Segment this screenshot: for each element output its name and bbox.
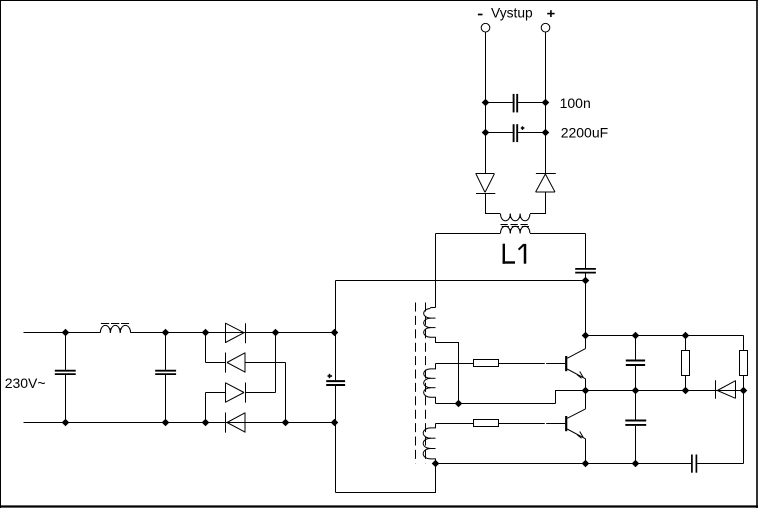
node: D3 to top rail xyxy=(272,329,280,337)
terminal minus xyxy=(481,23,490,32)
transistor Q1 xyxy=(566,336,585,391)
resistor R4 xyxy=(740,351,748,376)
capacitor after filter (second X cap) xyxy=(155,333,176,423)
node: R3 bottom xyxy=(682,387,690,395)
node: Q1 collector on rail xyxy=(582,332,590,340)
wire: right diode to L1 top winding xyxy=(530,192,546,214)
node: Q2 emitter on bottom rail xyxy=(582,460,590,468)
bridge diode D2 (pointing left) xyxy=(206,353,286,423)
wire: AC bottom rail xyxy=(24,422,335,424)
node: junction below cap xyxy=(582,277,590,285)
svg-text:100n: 100n xyxy=(560,95,591,111)
transistor Q2 xyxy=(566,391,585,464)
node: second cap top xyxy=(162,329,170,337)
svg-text:2200uF: 2200uF xyxy=(561,125,608,141)
resistor R1 xyxy=(474,360,499,367)
bridge diode D3 (pointing right) xyxy=(206,333,276,403)
wire: bottom rail (emitter line) xyxy=(436,463,692,465)
node: second cap bottom xyxy=(162,419,170,427)
diode D5 on middle rail (pointing left) xyxy=(716,380,736,398)
capacitor at L1 right (to primary bus) xyxy=(575,269,596,281)
svg-text:230V~: 230V~ xyxy=(5,375,46,391)
node: middle rail right xyxy=(740,387,748,395)
node: top rail to bulk line xyxy=(331,329,339,337)
wire: bulk cap vertical (lower) xyxy=(335,386,337,493)
inductor L1 bottom winding xyxy=(501,226,530,233)
bulk capacitor (polarized) xyxy=(326,374,345,385)
wire: horizontal bus y=280 to bulk cap line xyxy=(336,280,586,282)
output diode left (cathode down) xyxy=(476,174,496,194)
capacitor 100n xyxy=(486,94,546,113)
node: 100n right junction xyxy=(542,99,550,107)
wire: L1 left end down to transformer primary xyxy=(435,234,437,308)
node: bottom rail to bulk line xyxy=(331,419,339,427)
node: Ca bottom xyxy=(632,387,640,395)
wire: collector rail right corner down xyxy=(743,336,745,352)
wire: middle rail xyxy=(586,390,744,392)
transformer winding W1 (top) xyxy=(424,308,459,404)
node: bottom rail left branch xyxy=(202,419,210,427)
bridge diode D4 (bottom rail, pointing left) xyxy=(226,413,246,433)
wire: left diode to L1 top winding xyxy=(486,194,501,214)
wire: W2 bottom line to step xyxy=(436,403,556,405)
wire: L1 bottom winding left rail xyxy=(436,233,501,235)
transformer winding W3 (bottom) xyxy=(423,424,435,464)
label L1 xyxy=(503,244,525,264)
wire: right edge up to middle rail xyxy=(743,391,745,464)
resistor R3 (between rails) xyxy=(685,336,687,391)
wire: bulk cap vertical (upper) xyxy=(335,281,337,381)
svg-text:Vystup: Vystup xyxy=(491,5,533,20)
node: Cb bottom xyxy=(632,460,640,468)
wire: base line 1 (W2 top to R1 to Q1) xyxy=(436,363,566,365)
filter inductor core dashes xyxy=(101,323,129,325)
node: W3 bottom junction xyxy=(432,460,440,468)
wire: AC top rail (left of inductor) xyxy=(24,332,101,334)
wire: junction down to collector rail xyxy=(585,281,587,336)
node: W1 bottom to mid wire xyxy=(455,400,463,408)
node: 100n left junction xyxy=(482,99,490,107)
wire: bottom return to transformer xyxy=(336,464,436,493)
transformer winding W2 (middle) xyxy=(424,364,436,404)
node: R3 top xyxy=(682,332,690,340)
transformer core (dashed) xyxy=(416,303,426,464)
inductor L1 top winding xyxy=(501,214,530,221)
wire: branch up to D3 xyxy=(205,393,207,423)
bridge diode D1 (top rail, pointing right) xyxy=(226,323,246,343)
wire: branch down to D2 xyxy=(205,333,207,363)
node: left cap bottom xyxy=(62,419,70,427)
node: top rail left branch xyxy=(202,329,210,337)
wire: plus terminal down to right output diode xyxy=(545,32,547,174)
node: 2200uF right junction xyxy=(542,129,550,137)
capacitor across mains (left) xyxy=(55,333,76,423)
terminal plus xyxy=(541,23,550,32)
label "- Vystup +" xyxy=(491,5,533,20)
resistor R2 xyxy=(474,420,499,427)
output diode right (cathode up) xyxy=(536,174,556,193)
wire: L1 bottom winding right rail xyxy=(530,233,586,235)
wire: base line 2 (W3 top to R2 to Q2) xyxy=(436,423,566,425)
wire: R4 to middle rail xyxy=(743,376,745,391)
node: Q1 emitter / Q2 collector junction xyxy=(582,387,590,395)
wire: AC top rail (right of inductor) xyxy=(131,332,335,334)
capacitor Cb (middle rail to bottom rail) xyxy=(625,391,646,464)
node: D2 to bottom rail xyxy=(282,419,290,427)
L1 core (dashed) xyxy=(501,225,530,227)
filter inductor on top rail xyxy=(100,325,130,332)
node: 2200uF left junction xyxy=(482,129,490,137)
capacitor Ca (collector rail to middle rail) xyxy=(626,336,645,391)
wire: minus terminal down to left output diode xyxy=(485,32,487,174)
node: left cap top xyxy=(62,329,70,337)
wire: collector rail xyxy=(586,335,744,337)
node: Ca top xyxy=(632,332,640,340)
capacitor Cc (bottom right, in series) xyxy=(692,455,744,473)
wire: L1 right end down to snubber cap xyxy=(585,234,587,269)
wire: step up to emitter junction rail xyxy=(556,391,586,404)
capacitor 2200uF (polarized) xyxy=(486,124,546,142)
